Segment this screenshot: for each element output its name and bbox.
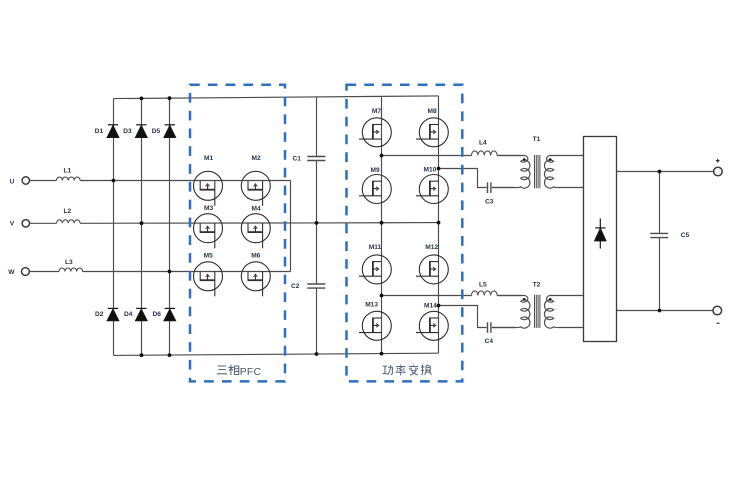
svg-text:D2: D2: [95, 311, 104, 318]
wire diode leg 1: [113, 99, 115, 356]
junction C5 minus wire: [658, 309, 662, 313]
svg-text:M14: M14: [424, 303, 437, 310]
junction mid bus right leg: [437, 221, 441, 225]
capacitor C1: [307, 157, 325, 161]
diode D5: [164, 125, 175, 138]
wire output minus: [617, 310, 714, 312]
wire top bus: [114, 96, 439, 99]
svg-text:W: W: [8, 269, 15, 276]
mosfet M3: [194, 214, 223, 249]
svg-text:L3: L3: [65, 259, 73, 266]
capacitor C3: [488, 182, 491, 193]
junction bottom bus leg 3: [168, 353, 172, 357]
svg-text:C2: C2: [291, 283, 300, 290]
mosfet M8: [416, 118, 448, 147]
mosfet M14: [416, 311, 448, 340]
wire C5 branch: [659, 172, 661, 311]
wire L5 tap: [382, 295, 522, 297]
minus mark: [717, 322, 720, 324]
rectifier diode: [595, 229, 606, 241]
wire diode leg 3: [169, 98, 171, 355]
svg-text:C4: C4: [485, 338, 494, 345]
wire output plus: [617, 171, 714, 173]
mosfet M4: [241, 214, 270, 249]
junction C5 plus wire: [658, 170, 662, 174]
transformer T2 primary winding: [492, 296, 530, 329]
svg-text:M3: M3: [204, 205, 213, 212]
junction bottom bus capacitor bus: [315, 352, 319, 356]
junction L5 tap left leg: [380, 294, 384, 298]
svg-text:L1: L1: [64, 167, 72, 174]
junction C3 tap right leg: [437, 167, 441, 171]
wire bottom bus: [114, 353, 439, 355]
label 功率变换: [383, 364, 432, 375]
svg-text:C5: C5: [681, 232, 690, 239]
wire phase V / mid bus: [30, 222, 439, 225]
svg-text:D3: D3: [123, 128, 132, 135]
mosfet M10: [416, 175, 448, 204]
junction L4 tap left leg: [380, 154, 384, 158]
svg-text:L4: L4: [479, 140, 487, 147]
diode D4: [136, 308, 147, 320]
rectifier block: [584, 137, 617, 342]
inductor L5: [472, 291, 498, 296]
svg-text:M13: M13: [365, 301, 378, 308]
transformer T1 primary winding: [492, 156, 530, 189]
wire L4 tap: [382, 155, 522, 157]
power dashed box: [347, 85, 463, 382]
wire bracket U-W: [290, 181, 292, 272]
svg-text:D6: D6: [153, 311, 162, 318]
junction V phase to D3 leg: [140, 221, 144, 225]
T2 primary phase dot: [523, 298, 526, 301]
svg-text:L2: L2: [64, 208, 72, 215]
capacitor C5: [650, 233, 668, 237]
inductor L4: [472, 151, 498, 156]
mosfet M13: [359, 311, 391, 340]
terminal W: [22, 268, 30, 276]
svg-text:PFC: PFC: [240, 367, 262, 378]
svg-text:M10: M10: [424, 167, 437, 174]
wire C4 tap: [439, 306, 516, 328]
diode D3: [136, 125, 147, 138]
wire right H-bridge leg: [438, 96, 440, 353]
wire C3 tap: [439, 169, 516, 188]
svg-text:L5: L5: [479, 282, 487, 289]
svg-text:M6: M6: [251, 253, 260, 260]
T2 secondary phase dot: [549, 298, 552, 301]
label 三相PFC: [217, 365, 239, 375]
mosfet M12: [416, 255, 448, 284]
svg-text:D1: D1: [95, 128, 104, 135]
svg-text:U: U: [10, 178, 15, 185]
terminal U: [22, 177, 29, 184]
plus mark: [716, 159, 720, 163]
capacitor C2: [307, 284, 325, 288]
junction mid bus left leg: [380, 221, 384, 225]
svg-text:D5: D5: [152, 128, 161, 135]
diode D6: [164, 308, 175, 320]
junction top bus leg 3: [168, 96, 172, 100]
mosfet M1: [194, 171, 223, 206]
PFC dashed box: [190, 85, 285, 382]
mosfet M7: [359, 118, 391, 147]
svg-text:V: V: [10, 221, 15, 228]
inductor L3: [59, 268, 83, 272]
svg-text:M4: M4: [252, 205, 261, 212]
mosfet M5: [194, 262, 223, 297]
mosfet M2: [241, 171, 270, 206]
mosfet M11: [359, 255, 391, 284]
terminal plus: [714, 167, 723, 176]
transformer T1 secondary winding: [544, 156, 583, 189]
diode D1: [107, 125, 118, 138]
svg-text:M8: M8: [428, 108, 437, 115]
svg-text:T1: T1: [533, 136, 541, 143]
wire diode leg 2: [141, 99, 143, 356]
mosfet M9: [359, 175, 391, 204]
terminal V: [22, 220, 29, 227]
junction bottom bus leg 2: [140, 353, 144, 357]
junction mid bus capacitor bus: [315, 221, 319, 225]
junction bottom bus left leg: [380, 352, 384, 356]
junction U phase to D1 leg: [112, 179, 116, 183]
diode D2: [107, 308, 118, 320]
wire phase W: [29, 271, 290, 273]
svg-text:M5: M5: [204, 253, 213, 260]
inductor L1: [57, 177, 81, 181]
wire phase U: [30, 180, 291, 182]
capacitor C4: [488, 322, 491, 333]
wire left H-bridge leg: [381, 96, 383, 353]
wire capacitor bus: [316, 97, 318, 354]
transformer T1 core: [535, 155, 540, 188]
rectifier diode bar: [595, 227, 605, 229]
svg-text:C1: C1: [293, 155, 302, 162]
junction C4 tap right leg: [437, 304, 441, 308]
svg-text:M2: M2: [252, 155, 261, 162]
junction W phase to D5 leg: [168, 270, 172, 274]
svg-text:T2: T2: [533, 282, 541, 289]
svg-text:M1: M1: [204, 155, 213, 162]
T1 secondary phase dot: [549, 158, 552, 161]
mosfet M6: [241, 262, 270, 297]
svg-text:M9: M9: [371, 167, 380, 174]
svg-text:C3: C3: [485, 199, 494, 206]
rectifier diode lead: [599, 219, 601, 249]
T1 primary phase dot: [523, 158, 526, 161]
svg-text:M12: M12: [425, 244, 438, 251]
junction top bus leg 2: [140, 97, 144, 101]
svg-text:M7: M7: [372, 108, 381, 115]
transformer T2 core: [535, 295, 540, 328]
svg-text:D4: D4: [124, 311, 133, 318]
transformer T2 secondary winding: [544, 296, 583, 329]
terminal minus: [713, 306, 722, 315]
inductor L2: [57, 220, 81, 224]
svg-text:M11: M11: [369, 244, 382, 251]
